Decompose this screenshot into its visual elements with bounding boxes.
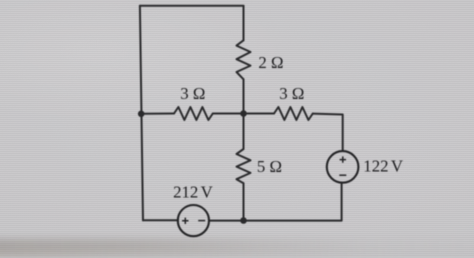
wire bottom right [209, 183, 342, 221]
resistor 3 ohm left [174, 107, 213, 120]
resistor 3 ohm right [274, 107, 313, 120]
wire node A to 2-ohm [243, 6, 245, 40]
svg-text:3 Ω: 3 Ω [180, 84, 205, 103]
svg-text:2 Ω: 2 Ω [258, 53, 283, 72]
wire 2-ohm to node B [243, 79, 245, 113]
voltage source 122 V circle [327, 151, 359, 183]
wire bottom left [143, 219, 178, 221]
resistor 5 ohm [237, 149, 251, 183]
wire R-right to right corner [313, 114, 343, 151]
122 V plus sign [340, 156, 346, 162]
svg-text:3 Ω: 3 Ω [279, 84, 304, 103]
junction dot node B [240, 110, 247, 117]
212 V plus sign [182, 218, 188, 224]
svg-text:212 V: 212 V [173, 182, 213, 201]
wire left [140, 6, 143, 221]
svg-text:5 Ω: 5 Ω [257, 157, 282, 176]
wire 5-ohm to node C [243, 183, 245, 220]
svg-text:122 V: 122 V [363, 156, 403, 175]
wire top [140, 5, 244, 7]
212 V minus sign [198, 220, 205, 222]
wire R-left to R-right [213, 113, 274, 115]
junction dot node A2 [138, 111, 145, 118]
resistor 2 ohm [237, 40, 251, 79]
wire node A2 to R-left [141, 113, 174, 115]
voltage source 212 V circle [178, 205, 209, 236]
wire node B to 5-ohm [243, 114, 245, 150]
122 V minus sign [339, 174, 346, 176]
junction dot node C [240, 217, 247, 224]
